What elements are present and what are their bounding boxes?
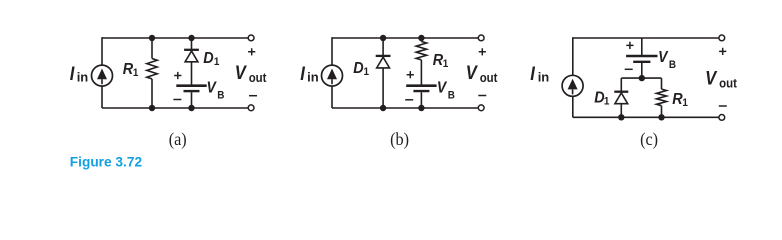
node junction (c) diode bottom [618,114,624,120]
node junction (b) R1 top [418,35,424,41]
node junction (b) diode bottom [380,105,386,111]
svg-text:R: R [123,60,133,78]
output terminal (c) top [719,35,725,41]
output terminal (a) top [248,35,254,41]
node junction (c) resistor bottom [658,114,664,120]
svg-text:B: B [448,90,456,102]
battery VB (c) [626,55,657,58]
circuit (c) bottom rail wire [573,116,719,118]
circuit (b) left wire lower segment [331,86,333,109]
output terminal (b) top [478,35,484,41]
svg-text:Figure 3.72: Figure 3.72 [70,155,143,170]
resistor R1 (b) [420,38,422,42]
wire diode-to-bottom (b) [382,68,384,108]
battery plus sign (a) [174,72,181,79]
diode branch wire (b) upper [382,38,384,55]
svg-text:I: I [300,63,305,85]
circuit (b) bottom rail wire [332,107,478,109]
resistor branch wire (c) upper [661,78,663,89]
output terminal (c) bottom [719,115,725,121]
wire diode-to-battery (a) [191,62,193,85]
battery minus sign (c) [625,68,633,70]
resistor R1 (a) [151,38,153,59]
diode D1 (b) [376,55,391,57]
svg-text:R: R [672,90,682,108]
circuit (b) top rail wire [332,37,478,39]
svg-text:B: B [669,60,677,72]
current source I_in (a) [92,65,113,86]
node junction (b) battery bottom [418,105,424,111]
node junction (c) below battery [639,75,645,81]
svg-text:V: V [658,50,668,67]
svg-text:D: D [353,59,363,77]
svg-text:1: 1 [682,97,688,109]
Vout plus sign (a) [248,48,255,55]
Vout minus sign (b) [478,95,486,97]
svg-text:out: out [249,70,267,85]
circuit (a) left wire lower segment [101,86,103,109]
svg-text:I: I [530,63,535,85]
circuit (a) top rail wire [102,37,248,39]
Vout plus sign (b) [479,48,486,55]
svg-text:V: V [466,62,479,84]
svg-text:(a): (a) [169,129,187,149]
svg-text:1: 1 [214,56,220,68]
node junction (a) R1 top [149,35,155,41]
battery branch wire (c) upper [641,38,643,55]
Vout plus sign (c) [719,48,726,55]
svg-text:1: 1 [364,66,370,78]
svg-text:out: out [719,76,737,91]
svg-text:V: V [207,80,217,97]
wire battery-to-splitter (c) [641,63,643,78]
output terminal (b) bottom [478,105,484,111]
svg-text:V: V [235,62,248,84]
circuit (c) left wire lower segment [572,96,574,117]
svg-text:R: R [433,51,443,69]
battery VB (a) [176,84,206,87]
Vout minus sign (a) [249,95,257,97]
diode D1 (a) [184,49,199,51]
battery minus sign (b) [405,99,413,101]
svg-text:I: I [70,63,75,85]
svg-text:D: D [203,49,213,67]
circuit (c) left wire upper segment [572,37,574,75]
svg-text:1: 1 [604,96,610,108]
svg-text:in: in [538,70,550,85]
circuit (c) top rail wire [573,37,719,39]
circuit (a) bottom rail wire [102,107,248,109]
svg-text:1: 1 [133,68,139,80]
wire diode-to-bottom (c) [620,104,622,118]
diode branch wire (a) upper [191,38,193,49]
splitter wire (c) [621,77,661,79]
battery VB (b) [406,84,436,87]
circuit (a) left wire upper segment [101,37,103,65]
svg-text:in: in [307,70,319,85]
battery plus sign (b) [407,71,414,78]
resistor R1 (c) [657,89,667,106]
svg-text:B: B [217,90,225,102]
svg-text:(b): (b) [390,129,409,149]
svg-text:out: out [480,70,498,85]
node junction (a) R1 bottom [149,105,155,111]
diode branch wire (c) upper [620,78,622,91]
battery minus sign (a) [173,99,181,101]
node junction (a) diode top [188,35,194,41]
wire battery-to-bottom (b) [420,92,422,108]
svg-text:V: V [437,80,447,97]
circuit (b) left wire upper segment [331,37,333,65]
diode D1 (c) [614,91,628,93]
battery plus sign (c) [626,42,633,49]
svg-text:in: in [77,70,89,85]
output terminal (a) bottom [248,105,254,111]
current source I_in (b) [322,65,343,86]
svg-text:1: 1 [443,58,449,70]
svg-text:V: V [705,67,718,89]
Vout minus sign (c) [719,105,727,107]
node junction (a) battery bottom [188,105,194,111]
wire battery-to-bottom (a) [191,92,193,108]
current source I_in (c) [562,75,583,96]
node junction (b) diode top [380,35,386,41]
svg-text:(c): (c) [640,129,658,149]
